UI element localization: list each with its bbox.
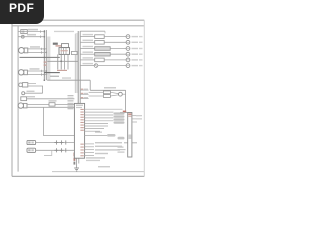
strip K upper pin wires <box>85 109 123 131</box>
terminal circle row B <box>21 35 24 38</box>
row R2 wire right <box>104 41 126 43</box>
row R0 wire <box>80 30 105 32</box>
label row B <box>27 34 36 36</box>
wire diode out 1 <box>110 92 118 93</box>
row R2 wire left <box>80 41 95 43</box>
relay pin down 1 <box>57 54 59 69</box>
label C2 wires <box>30 68 40 70</box>
relay coil box <box>62 44 69 48</box>
row R3 terminal circle <box>126 47 130 51</box>
label trunk <box>104 87 116 89</box>
row R5 terminal circle <box>126 58 130 62</box>
harness highlight band right <box>75 33 78 93</box>
row R0 tick <box>104 31 106 33</box>
strip K upper pins red labels <box>80 109 83 131</box>
wire E <box>25 92 43 94</box>
diode pair box 2 <box>103 95 110 98</box>
box D body <box>19 83 28 87</box>
block K top interior text <box>76 105 83 106</box>
row R5 wire left <box>80 59 95 61</box>
label C1 wires <box>30 46 40 48</box>
row R6 terminal circle <box>126 64 130 68</box>
wire trunk lower horizontal <box>47 79 90 81</box>
ECU interior smudge <box>128 135 131 140</box>
dark wire segment <box>44 72 60 74</box>
pin row P3 above block <box>80 97 88 99</box>
connector C3 body <box>18 103 27 108</box>
row R6 wire right <box>98 65 126 67</box>
row R6 splice circle <box>94 64 98 68</box>
harness highlight band left <box>47 37 50 81</box>
connector block K body <box>74 103 84 158</box>
strip K lower pins red labels <box>80 144 83 157</box>
wire C3 pin2 <box>27 106 74 108</box>
small text block mid <box>95 132 102 133</box>
note text bottom center <box>86 157 105 158</box>
row R6 label <box>83 63 94 64</box>
node above block K <box>0 0 1 1</box>
wire J1 to trunk <box>122 93 125 95</box>
relay R1 inner red marks <box>60 50 67 51</box>
border frame right line <box>143 20 145 176</box>
gray pill 3 <box>114 118 125 120</box>
pin ticks on left wires <box>41 30 42 75</box>
label above trunk <box>62 77 71 78</box>
relay R1 pin bar 1 <box>60 48 62 55</box>
row R4 wire left <box>80 53 95 55</box>
row R6 wire left <box>80 65 95 67</box>
gray pill 2 <box>114 115 125 117</box>
red pin row below relay <box>57 70 67 71</box>
wire C3 pin1 cont <box>55 104 74 106</box>
wire diode out 2 <box>110 95 118 96</box>
row R1 label <box>83 34 94 35</box>
row R4 box <box>95 52 111 56</box>
wire elbow left low <box>44 150 52 155</box>
row R1 tag <box>132 36 139 37</box>
row R2 label <box>83 40 94 41</box>
relay pin down 2 <box>60 54 62 69</box>
connector H2 body <box>27 148 36 152</box>
wire G elbow <box>44 107 75 135</box>
row R4 wire right <box>110 53 126 55</box>
border frame inner bottom line <box>52 171 144 173</box>
dark feed wire node SM <box>20 56 60 58</box>
border frame inner left line <box>17 26 19 172</box>
relay pin down 3 <box>64 54 66 69</box>
relay R1 pin bar 2 <box>63 48 65 55</box>
red vertical label column <box>74 153 76 157</box>
lower pin text labels <box>95 142 137 154</box>
red marks on bus B1 <box>44 62 47 63</box>
wire pill 5 feed <box>85 134 107 136</box>
wire trunk to right <box>90 89 125 91</box>
row R2 tag <box>132 42 139 43</box>
diode pair box 1 <box>103 91 110 94</box>
row R6 tag <box>132 65 139 66</box>
gray pill 1 <box>114 112 125 114</box>
wire F long <box>27 98 75 100</box>
PDF badge <box>0 0 44 24</box>
aux box right of relay <box>72 51 78 54</box>
gray pill 5 <box>107 134 116 137</box>
ECU wire out 2 <box>132 118 139 120</box>
row R1 terminal circle <box>126 35 130 39</box>
wire row B <box>18 36 44 38</box>
wire C3 pin1 <box>27 104 49 106</box>
relay label SM <box>53 43 58 45</box>
wire H1 <box>36 142 75 144</box>
junction dot mid <box>60 60 62 62</box>
relay pin down 4 <box>67 54 69 69</box>
long wire name label row1 <box>54 31 74 32</box>
row R5 tag <box>132 59 139 60</box>
ECU left small text <box>118 147 126 153</box>
ECU red pin marks 2 <box>128 116 131 117</box>
splice crosses H1 <box>54 140 65 144</box>
gray pill 6 <box>118 137 125 140</box>
red pin mark at ECU top <box>123 111 126 113</box>
text smudge below relay <box>50 76 59 77</box>
row R3 label <box>83 46 94 47</box>
row R4 terminal circle <box>126 52 130 56</box>
bus B2 line b <box>79 31 81 103</box>
row R3 tag <box>132 48 139 49</box>
relay R1 body <box>59 48 70 55</box>
pin row P2 above block <box>80 93 88 95</box>
row R2 terminal circle <box>126 40 130 44</box>
bus B5 vertical <box>78 158 80 163</box>
pin labels left of B3 <box>68 95 74 109</box>
row R1 wire left <box>80 36 95 38</box>
row R3 box <box>95 47 111 51</box>
row R5 label <box>83 57 94 58</box>
wire trunk down right <box>125 90 127 112</box>
connector C2 body <box>19 70 28 75</box>
splice crosses H2 <box>54 148 65 152</box>
wire C2 pin1 <box>27 70 47 72</box>
row R4 tag <box>132 54 139 55</box>
row R3 wire left <box>80 48 95 50</box>
wire diode feed 1 <box>89 91 104 93</box>
wire trunk corner down <box>89 80 91 90</box>
note text bottom center 2 <box>98 166 110 167</box>
terminal box F <box>21 97 27 101</box>
border frame outer top line <box>12 19 144 21</box>
wire C2 pin2 <box>27 74 47 76</box>
pin row P1 above block <box>80 89 88 91</box>
bus B1 line a <box>43 30 45 80</box>
bus B2 line a <box>77 31 79 103</box>
border frame outer bottom line <box>12 175 144 177</box>
ECU wire out 3 <box>132 121 137 123</box>
connector H1 body <box>27 140 36 144</box>
border frame outer left line <box>11 20 13 176</box>
band edge line <box>74 34 76 93</box>
fuse block F1 <box>21 30 28 34</box>
row R4 label <box>83 52 94 53</box>
wire D out <box>28 86 43 93</box>
wire mid horizontal <box>47 60 78 62</box>
ground symbol G1 <box>74 168 79 171</box>
row R1 box <box>95 35 105 39</box>
row R1 wire right <box>104 36 126 38</box>
note text bottom center line2 <box>86 160 100 161</box>
ECU wire out 1 <box>132 115 139 117</box>
left connector top stub line <box>17 49 19 51</box>
wire H2 <box>36 149 75 151</box>
wire C1 pin2 <box>28 51 47 53</box>
row R5 box <box>95 58 105 62</box>
ECU red pin marks <box>128 113 131 115</box>
ECU out labels <box>136 115 142 120</box>
label F <box>27 96 35 97</box>
wire D second <box>28 82 36 84</box>
bus B1 line b <box>45 30 47 80</box>
strip K lower pin wires <box>85 144 94 156</box>
wire stub right box top <box>120 112 132 114</box>
row R5 wire right <box>104 59 126 61</box>
wire row A <box>18 31 44 33</box>
gray pill 4 <box>114 121 125 123</box>
terminal circle E <box>22 92 25 95</box>
fuse F2 body <box>49 103 55 106</box>
row R3 wire right <box>110 48 126 50</box>
connector circle node J1 <box>119 92 123 96</box>
bus B4 vertical <box>76 158 78 168</box>
label E <box>27 91 35 92</box>
border frame inner top line <box>12 25 144 27</box>
wire C1 pin1 <box>28 48 47 50</box>
ECU box body <box>128 113 132 158</box>
relay pin numbers red top <box>56 45 65 46</box>
label row A <box>28 29 38 31</box>
wire diode feed 2 <box>89 95 104 97</box>
junction dots on bus B1 <box>44 31 48 81</box>
relay R1 pin bar 3 <box>65 48 67 55</box>
connector C1 body <box>19 48 28 54</box>
row R2 box <box>95 41 105 45</box>
label F2 <box>49 100 57 101</box>
